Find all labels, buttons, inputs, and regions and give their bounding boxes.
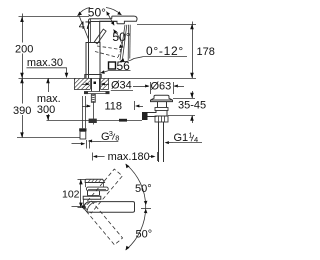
svg-text:50°: 50° — [136, 229, 153, 241]
svg-text:118: 118 — [105, 101, 123, 113]
svg-text:G1: G1 — [174, 132, 189, 144]
svg-text:200: 200 — [15, 44, 33, 56]
svg-text:3: 3 — [109, 129, 113, 138]
svg-text:300: 300 — [37, 104, 55, 116]
svg-text:50°: 50° — [135, 183, 152, 195]
svg-text:50°: 50° — [88, 5, 106, 19]
svg-text:390: 390 — [13, 105, 31, 117]
svg-text:max.30: max.30 — [27, 57, 63, 69]
svg-text:Ø63: Ø63 — [151, 81, 172, 93]
svg-text:102: 102 — [62, 189, 80, 201]
svg-text:50°: 50° — [112, 30, 130, 44]
svg-text:178: 178 — [197, 46, 215, 58]
svg-text:47: 47 — [79, 20, 91, 32]
svg-text:35-45: 35-45 — [178, 100, 206, 112]
svg-text:Ø34: Ø34 — [111, 80, 132, 92]
svg-text:8: 8 — [115, 133, 119, 142]
svg-text:0°-12°: 0°-12° — [146, 44, 184, 58]
svg-text:max.180: max.180 — [108, 151, 150, 163]
svg-text:4: 4 — [194, 135, 198, 144]
